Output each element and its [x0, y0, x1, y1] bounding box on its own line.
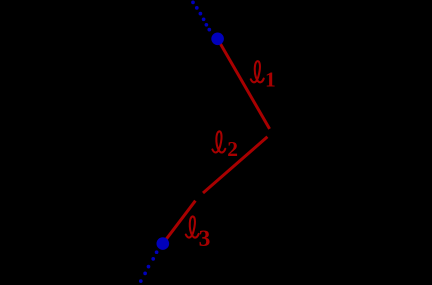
segment l3 — [163, 201, 195, 244]
label l_1 — [251, 61, 276, 91]
label l_3 — [186, 216, 211, 251]
point P1 (top blue dot) — [211, 33, 224, 46]
dotted ray (bottom, extension beyond point P2) — [135, 250, 158, 285]
svg-text:2: 2 — [227, 137, 238, 161]
point P2 (bottom blue dot) — [157, 237, 170, 250]
dotted ray (top, extension beyond point P1) — [191, 1, 211, 32]
svg-text:1: 1 — [265, 68, 276, 92]
segment l1 — [219, 41, 270, 129]
segment l2 — [203, 137, 267, 193]
svg-text:3: 3 — [199, 226, 211, 252]
label l_2 — [212, 131, 238, 161]
